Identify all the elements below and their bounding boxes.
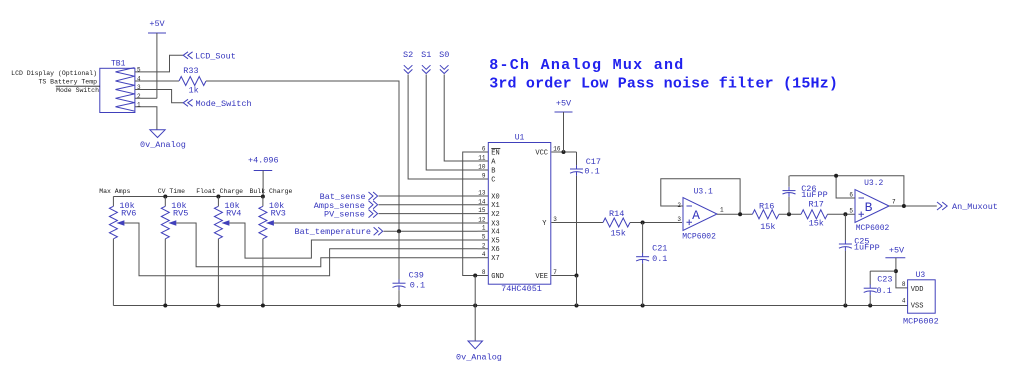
svg-text:RV6: RV6 [121, 208, 136, 218]
wire mux Y to R14 [551, 222, 603, 224]
wire mux GND to ground bus [474, 276, 476, 306]
svg-text:15: 15 [478, 207, 486, 214]
svg-text:B: B [491, 167, 495, 175]
svg-text:3: 3 [553, 216, 557, 223]
svg-text:C23: C23 [877, 275, 892, 285]
svg-text:15k: 15k [809, 218, 824, 228]
U3.1 pin numbers [677, 202, 724, 223]
power +5V (TB1 area) [148, 19, 166, 33]
power +5V (right) [885, 245, 905, 257]
svg-text:S2: S2 [403, 50, 413, 60]
power +4.096 [248, 155, 279, 170]
resistor R33 [179, 66, 206, 96]
svg-text:VDD: VDD [911, 286, 924, 294]
svg-text:+5V: +5V [556, 99, 572, 109]
capacitor C26 [783, 176, 828, 215]
wire R17 to U3.2 +in [827, 213, 855, 215]
svg-text:X1: X1 [491, 202, 499, 210]
port Amps_sense [314, 201, 378, 211]
svg-text:4: 4 [482, 251, 486, 258]
port An_Muxout [937, 202, 998, 212]
port Bat_temperature [294, 227, 382, 237]
wire ground bus bottom [113, 305, 907, 307]
wire R14 to U3.1 +in [630, 222, 682, 224]
svg-text:+5V: +5V [889, 245, 905, 255]
wire TB1 pin3 to Mode_Switch [135, 90, 183, 103]
svg-text:5: 5 [482, 234, 486, 241]
IC U3 power block [903, 271, 939, 326]
svg-text:0.1: 0.1 [410, 281, 425, 291]
port LCD_Sout [183, 51, 236, 61]
node VEE junction [575, 274, 579, 278]
svg-text:+5V: +5V [149, 19, 165, 29]
wire +5V to TB1 pin2 [156, 33, 158, 98]
node feedback junction [834, 174, 838, 178]
svg-text:3: 3 [677, 216, 681, 223]
IC U1 74HC4051 [488, 134, 551, 294]
port S0 [439, 50, 449, 73]
svg-text:RV5: RV5 [173, 208, 188, 218]
U1 left pin names [491, 149, 504, 282]
svg-text:Max Amps: Max Amps [99, 188, 130, 195]
U1 right pin names [535, 149, 548, 281]
svg-text:16: 16 [553, 146, 561, 153]
svg-text:Mode_Switch: Mode_Switch [196, 99, 252, 109]
svg-text:PP: PP [870, 243, 880, 253]
svg-text:7: 7 [892, 199, 896, 206]
wire mux VEE stub [551, 275, 576, 277]
svg-text:1uF: 1uF [854, 242, 869, 252]
svg-text:X0: X0 [491, 193, 499, 201]
svg-text:9: 9 [482, 173, 486, 180]
svg-text:U3.2: U3.2 [864, 179, 883, 188]
svg-text:CV Time: CV Time [158, 188, 185, 195]
capacitor C39 [393, 231, 426, 305]
svg-text:0.1: 0.1 [584, 166, 599, 176]
svg-text:A: A [692, 208, 700, 223]
resistor R14 [603, 209, 630, 239]
node mux GND junction [473, 274, 477, 278]
svg-text:X4: X4 [491, 229, 499, 237]
wire R16 to R17 [779, 213, 801, 215]
svg-text:C: C [491, 176, 495, 184]
svg-text:GND: GND [491, 273, 504, 281]
svg-text:X2: X2 [491, 211, 499, 219]
svg-text:0v_Analog: 0v_Analog [456, 353, 502, 363]
svg-text:RV4: RV4 [226, 208, 241, 218]
wire TB1 pin1 to ground [135, 107, 157, 130]
U3 pin numbers [902, 281, 906, 305]
port S2 [403, 50, 413, 73]
svg-text:X6: X6 [491, 246, 499, 254]
node R14/C21 junction [641, 221, 645, 225]
svg-text:6: 6 [482, 146, 486, 153]
svg-text:7: 7 [553, 269, 557, 276]
power +5V (above U1) [555, 99, 573, 113]
port Mode_Switch [183, 99, 251, 109]
svg-text:6: 6 [849, 192, 853, 199]
svg-text:EN: EN [491, 149, 499, 157]
svg-text:TS Battery Temp: TS Battery Temp [38, 78, 97, 85]
svg-text:LCD Display (Optional): LCD Display (Optional) [11, 70, 97, 77]
potentiometer RV6 [109, 197, 136, 306]
svg-text:1: 1 [482, 225, 486, 232]
node pot top bus junctions [163, 195, 265, 199]
wire RV6 wiper to mux X6 [124, 223, 477, 276]
svg-text:C21: C21 [652, 243, 667, 253]
wire ground bus to 0v_Analog [474, 306, 476, 342]
svg-text:X3: X3 [491, 220, 499, 228]
port Bat_sense [320, 192, 378, 202]
wire S2 to mux C [408, 75, 477, 180]
svg-text:RV3: RV3 [271, 208, 286, 218]
svg-text:B: B [865, 200, 873, 215]
svg-text:VSS: VSS [911, 302, 924, 310]
svg-text:8: 8 [482, 269, 486, 276]
svg-text:1k: 1k [189, 86, 199, 96]
node Bat_temperature junction [397, 229, 401, 233]
wire TB1 pin5 to LCD_Sout [135, 55, 183, 72]
op-amp U3.2 [855, 179, 890, 233]
svg-text:VEE: VEE [535, 273, 548, 281]
svg-text:4: 4 [902, 298, 906, 305]
wire +4.096 down to pot bus [262, 171, 264, 197]
node ground bus junctions [163, 304, 872, 308]
svg-text:R33: R33 [183, 66, 198, 76]
potentiometer RV3 [259, 197, 286, 306]
potentiometer RV4 [214, 197, 241, 306]
wire TB1 pin4 to R33 [135, 80, 179, 82]
wire Bat_temperature to mux X4 [384, 230, 478, 232]
svg-text:MCP6002: MCP6002 [682, 232, 716, 241]
svg-text:TB1: TB1 [111, 60, 126, 69]
node R17/C25 junction [843, 212, 847, 216]
svg-text:LCD_Sout: LCD_Sout [195, 51, 236, 61]
svg-text:S1: S1 [421, 50, 431, 60]
potentiometer RV5 [161, 197, 188, 306]
wire +5V down to VCC [563, 112, 565, 152]
svg-text:C39: C39 [409, 270, 424, 280]
wire TB1 pin2 to +5V [135, 97, 157, 99]
svg-text:13: 13 [478, 190, 486, 197]
svg-text:X5: X5 [491, 237, 499, 245]
svg-text:10: 10 [478, 164, 486, 171]
svg-text:15k: 15k [760, 222, 775, 232]
resistor R16 [752, 202, 779, 233]
op-amp U3.1 [682, 188, 717, 242]
wire RV5 wiper to mux X7 [176, 223, 477, 267]
svg-text:0.1: 0.1 [652, 254, 667, 264]
wire C23 branch [870, 270, 896, 272]
wire VEE line to ground bus [576, 276, 578, 306]
wire mux VCC stub to +5V and C17 [551, 151, 576, 153]
svg-text:3rd order Low Pass noise filte: 3rd order Low Pass noise filter (15Hz) [489, 75, 838, 92]
svg-text:VCC: VCC [535, 149, 548, 157]
svg-text:2: 2 [482, 242, 486, 249]
svg-text:Float Charge: Float Charge [196, 188, 243, 195]
svg-text:8-Ch Analog Mux and: 8-Ch Analog Mux and [489, 57, 684, 74]
capacitor C23 [864, 271, 893, 305]
TB1 pin numbers [137, 66, 141, 108]
svg-text:R17: R17 [809, 199, 824, 209]
svg-text:1: 1 [720, 207, 724, 214]
capacitor C25 [839, 214, 880, 305]
terminal block TB1 [100, 60, 135, 113]
svg-text:Bat_temperature: Bat_temperature [294, 227, 371, 237]
ground 0v_Analog (center) [456, 341, 502, 363]
svg-text:11: 11 [478, 155, 486, 162]
svg-text:12: 12 [478, 217, 486, 224]
wire S0 to mux A [444, 75, 477, 162]
capacitor C17 [570, 152, 601, 276]
wire pot top bus [113, 196, 263, 198]
port S1 [421, 50, 431, 73]
label Mode Switch [56, 86, 100, 94]
wire RV3 wiper to mux X3 [274, 222, 478, 224]
svg-text:8: 8 [902, 281, 906, 288]
resistor R17 [801, 199, 828, 228]
svg-text:74HC4051: 74HC4051 [501, 284, 542, 294]
wire U3.2 feedback top [836, 176, 904, 206]
wire U3.1 output to R16 [717, 213, 752, 215]
svg-text:+4.096: +4.096 [248, 155, 279, 165]
wire mux EN to GND row [463, 152, 478, 276]
node U3.1 output junction [738, 212, 742, 216]
svg-text:Bulk Charge: Bulk Charge [250, 188, 293, 195]
wire U3.2 output to An_Muxout [889, 205, 937, 207]
wire Bat_sense to mux X0 [379, 195, 478, 197]
node +5V/C23 junction [894, 269, 898, 273]
wire PV_sense to mux X2 [379, 213, 478, 215]
wire mux pin stubs left [478, 152, 489, 276]
svg-text:An_Muxout: An_Muxout [952, 202, 998, 212]
svg-text:Mode Switch: Mode Switch [56, 87, 99, 94]
U1 pin numbers [478, 146, 561, 277]
node R16/R17/C26 junction [787, 212, 791, 216]
svg-text:5: 5 [849, 208, 853, 215]
node VCC junction [562, 150, 566, 154]
svg-text:14: 14 [478, 198, 486, 205]
svg-text:S0: S0 [439, 50, 449, 60]
U3.2 pin numbers [849, 192, 896, 215]
wire U3.2 feedback via C26 [790, 176, 856, 198]
wire U3.1 feedback loop [661, 179, 740, 215]
node U3.2 output junction [902, 204, 906, 208]
wire RV4 wiper to mux X5 [229, 223, 477, 258]
svg-text:0v_Analog: 0v_Analog [140, 140, 186, 150]
svg-text:MCP6002: MCP6002 [856, 224, 890, 233]
svg-text:R14: R14 [609, 209, 624, 219]
svg-text:MCP6002: MCP6002 [903, 317, 939, 327]
svg-text:PV_sense: PV_sense [324, 210, 365, 220]
svg-text:U3: U3 [916, 271, 926, 280]
wire +5V to VDD [896, 258, 908, 288]
svg-text:1uF: 1uF [801, 190, 816, 200]
svg-text:U1: U1 [515, 134, 525, 143]
svg-text:15k: 15k [611, 228, 626, 238]
svg-text:X7: X7 [491, 255, 499, 263]
ground 0v_Analog (TB1) [140, 130, 186, 150]
svg-text:0.1: 0.1 [877, 286, 892, 296]
wire Amps_sense to mux X1 [379, 204, 478, 206]
svg-text:U3.1: U3.1 [694, 188, 713, 197]
wire S1 to mux B [426, 75, 477, 171]
port PV_sense [324, 210, 378, 220]
wire R33 to Bat_temperature node [206, 81, 399, 231]
capacitor C21 [636, 223, 667, 306]
